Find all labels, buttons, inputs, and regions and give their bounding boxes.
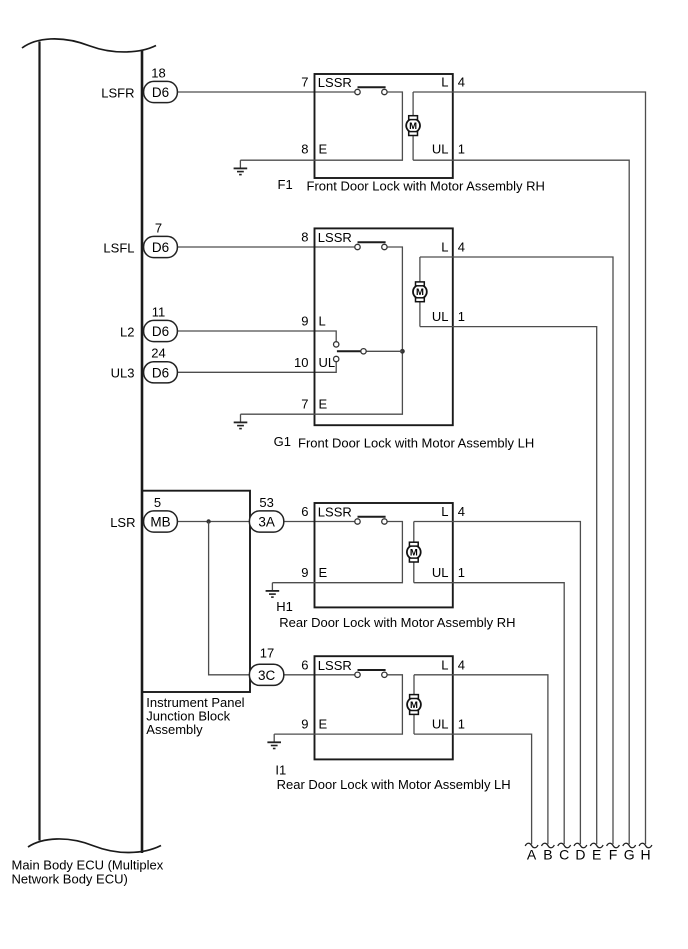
wire G1 L (pin 4) to point F [420, 257, 613, 844]
motor M G1 [413, 282, 427, 302]
wire 3A (pin 53) to H1 pin 6 [284, 521, 355, 523]
svg-text:D6: D6 [152, 85, 169, 100]
connector MB (LSR, pin 5) [110, 495, 177, 532]
wire LSFL (D6 pin 7) to G1 pin 8 [177, 246, 355, 248]
G1 motor vertical wire [419, 257, 421, 327]
svg-text:UL: UL [432, 309, 449, 324]
svg-text:5: 5 [154, 495, 161, 510]
F1 pin labels [301, 75, 465, 157]
I1 switch common wire to E (pin 9) and ground [274, 675, 402, 734]
svg-text:4: 4 [458, 504, 465, 519]
F1 designator and description [278, 177, 545, 194]
wire F1 UL (pin 1) to point G [413, 160, 629, 844]
F1 switch common wire to E (pin 8) and ground [240, 92, 402, 160]
svg-text:Rear Door Lock with Motor Asse: Rear Door Lock with Motor Assembly LH [277, 777, 511, 792]
svg-text:1: 1 [458, 717, 465, 732]
svg-text:L: L [441, 504, 448, 519]
wire F1 L (pin 4) to point H [413, 92, 645, 844]
wire UL3 (D6 pin 24) to G1 pin 10 contact [177, 362, 336, 373]
svg-text:24: 24 [151, 346, 165, 361]
svg-text:MB: MB [150, 515, 170, 530]
H1 Rear Door Lock with Motor Assembly RH box [315, 503, 453, 607]
wire LSFR (D6 pin 18) to F1 pin 7 [177, 91, 355, 93]
svg-text:M: M [416, 287, 424, 298]
door lock switch I1 [355, 670, 387, 678]
svg-text:9: 9 [301, 717, 308, 732]
motor M H1 [407, 542, 421, 562]
svg-text:LSSR: LSSR [318, 230, 352, 245]
G1 selector pivot wire [366, 350, 402, 352]
svg-text:LSSR: LSSR [318, 505, 352, 520]
svg-text:L: L [441, 657, 448, 672]
svg-text:G: G [624, 847, 635, 863]
svg-text:53: 53 [259, 495, 273, 510]
svg-text:Front Door Lock with Motor Ass: Front Door Lock with Motor Assembly LH [298, 436, 534, 451]
continuation point H (squiggle terminator) [639, 843, 652, 848]
svg-text:LSFL: LSFL [103, 240, 134, 255]
svg-text:3C: 3C [258, 668, 276, 683]
ground (G1 E) [240, 414, 242, 422]
H1 designator and description [276, 599, 515, 630]
svg-text:UL: UL [319, 355, 336, 370]
wire G1 UL (pin 1) to point E [420, 327, 597, 845]
continuation point G (squiggle terminator) [623, 843, 636, 848]
motor M I1 [407, 695, 421, 715]
svg-text:E: E [319, 717, 328, 732]
svg-text:7: 7 [301, 75, 308, 90]
svg-text:L: L [441, 240, 448, 255]
svg-text:LSSR: LSSR [318, 75, 352, 90]
H1 motor vertical wire [413, 522, 415, 583]
Main Body ECU band (torn-edge component strip) [22, 39, 161, 853]
svg-text:LSSR: LSSR [318, 658, 352, 673]
svg-text:UL: UL [432, 565, 449, 580]
svg-text:Main Body ECU (Multiplex: Main Body ECU (Multiplex [12, 857, 164, 872]
I1 pin labels [301, 657, 465, 731]
Instrument Panel Junction Block Assembly box [142, 491, 250, 692]
continuation point D (squiggle terminator) [574, 843, 587, 848]
Main Body ECU label [12, 857, 164, 886]
svg-text:M: M [410, 700, 418, 711]
svg-text:UL: UL [432, 142, 449, 157]
svg-text:7: 7 [301, 397, 308, 412]
svg-text:9: 9 [301, 565, 308, 580]
ground (F1 E) [239, 160, 241, 168]
svg-text:10: 10 [294, 355, 308, 370]
svg-text:8: 8 [301, 230, 308, 245]
ground (H1 E) [271, 583, 273, 591]
svg-text:1: 1 [458, 309, 465, 324]
wire junction block internal drop to 3C [209, 522, 250, 675]
svg-text:LSR: LSR [110, 515, 135, 530]
ground (I1 E) [273, 734, 275, 742]
svg-text:18: 18 [151, 65, 165, 80]
svg-text:F1: F1 [278, 177, 293, 192]
svg-text:1: 1 [458, 565, 465, 580]
svg-text:6: 6 [301, 657, 308, 672]
svg-text:D6: D6 [152, 240, 169, 255]
svg-text:H: H [640, 847, 650, 863]
svg-text:L2: L2 [120, 324, 134, 339]
svg-text:A: A [527, 847, 537, 863]
wire 3C (pin 17) to I1 pin 6 [284, 674, 355, 676]
connector D6 (L2, pin 11) [120, 304, 177, 341]
connector 3C (pin 17) [249, 646, 283, 686]
svg-text:11: 11 [152, 304, 166, 319]
F1 Front Door Lock with Motor Assembly RH box [315, 74, 453, 178]
connector D6 (LSFR, pin 18) [101, 65, 177, 102]
continuation point C (squiggle terminator) [558, 843, 571, 848]
svg-text:Assembly: Assembly [146, 722, 203, 737]
connector 3A (pin 53) [249, 495, 283, 532]
G1 switch common wire down to E (pin 7) and ground [241, 247, 403, 414]
H1 pin labels [301, 504, 465, 580]
svg-text:17: 17 [260, 646, 274, 661]
svg-text:4: 4 [458, 75, 465, 90]
G1 selector switch blade and contacts [334, 342, 367, 362]
door lock switch H1 [355, 517, 387, 525]
G1 designator and description [274, 434, 535, 451]
svg-text:L: L [319, 314, 326, 329]
svg-text:C: C [559, 847, 569, 863]
svg-text:B: B [543, 847, 552, 863]
I1 Rear Door Lock with Motor Assembly LH box [315, 656, 453, 759]
svg-text:E: E [319, 565, 328, 580]
svg-text:4: 4 [458, 240, 465, 255]
svg-text:H1: H1 [276, 599, 293, 614]
connector D6 (LSFL, pin 7) [103, 220, 177, 257]
wire H1 L (pin 4) to point D [414, 522, 581, 845]
connector D6 (UL3, pin 24) [111, 346, 178, 383]
svg-text:M: M [409, 121, 417, 132]
svg-text:E: E [319, 397, 328, 412]
svg-text:I1: I1 [275, 763, 286, 778]
wire LSR (MB pin 5) to junction block 3A pin 53 [177, 521, 249, 523]
I1 motor vertical wire [413, 675, 415, 734]
svg-text:9: 9 [301, 314, 308, 329]
continuation point B (squiggle terminator) [542, 843, 555, 848]
svg-text:LSFR: LSFR [101, 85, 134, 100]
svg-text:E: E [319, 142, 328, 157]
I1 designator and description [275, 763, 510, 792]
H1 switch common wire to E (pin 9) and ground [272, 522, 402, 583]
G1 pin labels [294, 230, 465, 412]
continuation point E (squiggle terminator) [590, 843, 603, 848]
Instrument Panel Junction Block Assembly label [146, 695, 244, 737]
door lock switch F1 [355, 87, 387, 95]
continuation point F (squiggle terminator) [607, 843, 620, 848]
wire H1 UL (pin 1) to point C [414, 583, 564, 845]
continuation point A (squiggle terminator) [525, 843, 538, 848]
svg-text:3A: 3A [258, 515, 275, 530]
svg-text:L: L [441, 75, 448, 90]
svg-text:4: 4 [458, 657, 465, 672]
svg-text:Rear Door Lock with Motor Asse: Rear Door Lock with Motor Assembly RH [279, 615, 515, 630]
junction dot G1 selector to common [400, 349, 405, 354]
svg-text:E: E [592, 847, 601, 863]
svg-text:M: M [410, 548, 418, 559]
junction dot on MB-3A wire [206, 519, 210, 523]
wire I1 L (pin 4) to point B [414, 675, 548, 844]
G1 Front Door Lock with Motor Assembly LH box [315, 228, 453, 425]
door lock switch G1 [355, 242, 387, 250]
svg-text:D6: D6 [152, 324, 169, 339]
svg-text:D: D [575, 847, 585, 863]
svg-text:6: 6 [301, 504, 308, 519]
svg-text:UL: UL [432, 717, 449, 732]
F1 motor vertical wire [412, 92, 414, 160]
motor M F1 [406, 116, 420, 136]
svg-text:Network Body ECU): Network Body ECU) [12, 872, 128, 887]
svg-text:UL3: UL3 [111, 366, 135, 381]
svg-text:D6: D6 [152, 365, 169, 380]
svg-text:1: 1 [458, 142, 465, 157]
wire L2 (D6 pin 11) to G1 pin 9 contact [177, 331, 336, 342]
svg-text:7: 7 [155, 220, 162, 235]
svg-text:Front Door Lock with Motor Ass: Front Door Lock with Motor Assembly RH [307, 179, 545, 194]
svg-text:G1: G1 [274, 434, 291, 449]
wire I1 UL (pin 1) to point A [414, 734, 532, 844]
svg-text:F: F [609, 847, 618, 863]
svg-text:8: 8 [301, 142, 308, 157]
